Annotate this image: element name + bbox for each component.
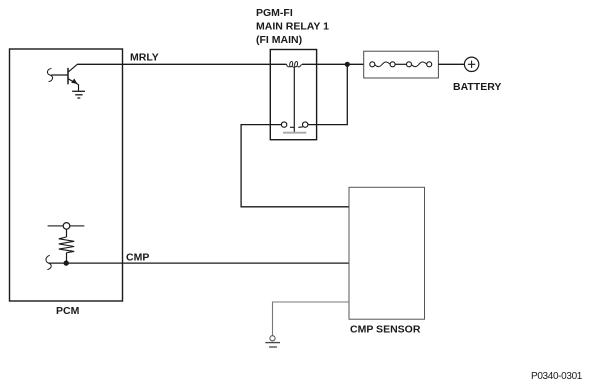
resistor (pull-up in PCM): [59, 237, 74, 253]
PCM box: [10, 49, 123, 301]
wire emitter to ground: [78, 84, 80, 91]
wire MRLY: PCM to relay coil: [77, 63, 287, 65]
svg-text:BATTERY: BATTERY: [453, 81, 501, 93]
svg-text:MAIN RELAY 1: MAIN RELAY 1: [256, 21, 329, 33]
fuse box: [364, 51, 439, 78]
wire relay left contact to CMP sensor: [241, 125, 349, 207]
relay contact left terminal: [281, 122, 286, 127]
fuse terminal 3: [407, 62, 412, 67]
chassis ground (CMP sensor): [265, 336, 280, 347]
battery terminal (+): [464, 57, 478, 71]
label MRLY: [130, 52, 159, 64]
label BATTERY: [453, 81, 501, 93]
wire sensor to ground: [273, 302, 350, 336]
svg-text:CMP SENSOR: CMP SENSOR: [350, 324, 421, 336]
wire resistor to CMP node: [66, 253, 68, 263]
label PGM-FI / MAIN RELAY 1 / (FI MAIN): [256, 7, 329, 46]
label CMP SENSOR: [350, 324, 421, 336]
relay contact right terminal: [303, 122, 308, 127]
relay coil: [286, 61, 301, 67]
fuse element 2: [412, 62, 427, 67]
relay armature bar (gray): [283, 132, 306, 134]
relay plunger (vertical link from coil to armature): [293, 67, 295, 133]
svg-text:MRLY: MRLY: [130, 52, 159, 64]
label CMP: [126, 252, 149, 264]
CMP node junction dot: [63, 260, 68, 265]
relay box PGM-FI MAIN RELAY 1: [270, 50, 316, 140]
wire contact to resistor: [66, 229, 68, 237]
fuse element 1: [375, 62, 390, 67]
transistor Q1: [51, 64, 78, 84]
svg-text:PGM-FI: PGM-FI: [256, 7, 293, 19]
fuse terminal 1: [370, 62, 375, 67]
fuse terminal 2: [390, 62, 395, 67]
wire coil out to fuse: [302, 63, 364, 65]
svg-text:P0340-0301: P0340-0301: [531, 371, 583, 382]
wire break squiggle at CMP: [46, 255, 51, 269]
wire fuse to battery: [438, 63, 464, 65]
wire between fuses: [395, 63, 406, 65]
relay switch blade (open): [290, 126, 303, 128]
fuse terminal 4: [427, 62, 432, 67]
wire break squiggle at transistor base: [47, 68, 52, 81]
pull-up contact circle in PCM: [48, 223, 85, 230]
junction node (battery feed): [345, 62, 350, 67]
wire CMP: PCM to sensor: [49, 262, 349, 264]
ground (transistor emitter): [72, 91, 85, 98]
label P0340-0301: [531, 371, 583, 382]
CMP sensor box: [349, 187, 425, 319]
wire relay right contact to battery line: [308, 64, 347, 124]
svg-text:PCM: PCM: [56, 305, 80, 317]
label PCM: [56, 305, 80, 317]
svg-text:(FI MAIN): (FI MAIN): [256, 34, 302, 46]
svg-text:CMP: CMP: [126, 252, 149, 264]
